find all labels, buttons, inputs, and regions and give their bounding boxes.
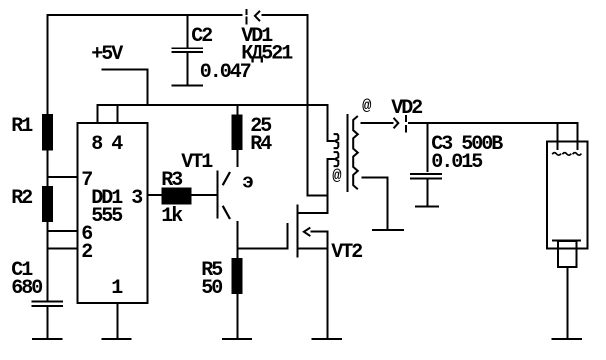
lamp EL1 tube <box>547 142 588 249</box>
lamp base box <box>558 241 577 267</box>
wire VT2 source down to ground <box>327 231 329 339</box>
svg-text:0.047: 0.047 <box>200 61 251 84</box>
wire top rail right segment <box>262 14 309 16</box>
transistor VT2 gate bar <box>287 223 289 250</box>
transistor VT1 base bar <box>217 171 219 219</box>
svg-text:1k: 1k <box>161 205 183 228</box>
wire left vertical from top rail to R1 <box>47 14 49 114</box>
wire VT2 bulk wire <box>297 247 328 249</box>
svg-text:э: э <box>242 172 253 195</box>
svg-text:VD2: VD2 <box>391 97 422 120</box>
wire R2 to C1 <box>47 222 49 301</box>
lamp filament squiggle <box>552 153 581 156</box>
wire VT2 drain wire <box>298 212 329 214</box>
capacitor C2 bottom lead <box>187 53 189 85</box>
capacitor C1 bottom lead <box>47 307 49 339</box>
resistor R2 <box>42 186 53 222</box>
svg-text:0.015: 0.015 <box>431 151 482 174</box>
wire top rail left segment <box>47 14 243 16</box>
wire gate wire from collector node <box>237 247 289 249</box>
svg-text:C2: C2 <box>191 25 212 48</box>
resistor R5 <box>232 258 243 294</box>
diode VD1 (cathode bar) <box>246 9 248 25</box>
wire pin7 stub <box>47 176 79 178</box>
wire winding-left bottom vertical <box>327 158 329 214</box>
wire R1 to R2 <box>47 150 49 187</box>
ground under R5 <box>222 338 252 340</box>
svg-text:555: 555 <box>91 205 122 228</box>
diode VD2 arrowhead <box>394 119 398 128</box>
wire lamp bottom lead <box>567 267 569 339</box>
transistor VT1 collector stroke <box>223 206 230 219</box>
resistor R4 <box>232 115 243 151</box>
svg-text:8: 8 <box>91 133 102 156</box>
transformer core <box>347 114 349 192</box>
ground under C2 <box>172 84 204 86</box>
wire winding-left top lead <box>327 104 329 142</box>
svg-text:R1: R1 <box>11 115 33 138</box>
svg-text:@: @ <box>332 167 341 185</box>
svg-text:@: @ <box>362 97 371 115</box>
ground under transformer secondary <box>372 229 404 231</box>
svg-text:3: 3 <box>131 187 142 210</box>
wire winding-right bottom lead <box>362 177 389 179</box>
capacitor C3 bottom lead <box>427 179 429 205</box>
wire pin4 drop <box>117 104 119 123</box>
transistor VT2 channel bar <box>297 205 299 258</box>
capacitor C2 plates <box>172 47 204 53</box>
wire VT1 emitter lead up <box>237 150 239 167</box>
wire pin2 stub <box>47 247 79 249</box>
ground under lamp <box>552 338 583 340</box>
wire VT1 collector lead down <box>237 221 239 249</box>
ground under C3 <box>415 206 439 208</box>
transformer T1 secondary winding <box>353 116 358 189</box>
lamp base flange <box>552 240 581 242</box>
wire R3 to VT1 base <box>192 194 219 196</box>
wire R5 top lead <box>237 247 239 258</box>
wire lamp terminal drop 1 <box>557 122 559 150</box>
wire winding hook top <box>327 140 335 142</box>
capacitor C3 top lead <box>427 122 429 172</box>
capacitor C3 plates <box>410 173 442 179</box>
wire VD2 output to lamp <box>408 122 579 124</box>
diode VD2 anode wire with arrow <box>361 122 394 124</box>
wire winding-right drop to ground <box>387 177 389 231</box>
wire R4 top lead <box>237 104 239 115</box>
diode VD2 cathode bar <box>405 115 407 132</box>
resistor R1 <box>42 114 53 151</box>
wire from top rail down (VD1 cathode to drain node) <box>307 14 309 196</box>
capacitor C1 plates <box>32 300 64 307</box>
svg-text:2: 2 <box>81 241 92 264</box>
svg-text:R3: R3 <box>161 169 182 192</box>
svg-text:R2: R2 <box>11 187 32 210</box>
wire R5 bottom lead <box>237 294 239 339</box>
wire junction horizontal <box>307 195 329 197</box>
diode VD1 arrow <box>255 12 259 21</box>
capacitor C2 top lead <box>187 14 189 47</box>
svg-text:VT2: VT2 <box>331 241 362 264</box>
wire +5V drop to rail <box>147 69 149 107</box>
ground under C1 <box>32 338 63 340</box>
svg-text:+5V: +5V <box>91 43 123 66</box>
ground under VT2 <box>312 338 343 340</box>
wire winding hook bottom <box>327 158 335 160</box>
svg-text:50: 50 <box>201 277 222 300</box>
wire pin3 stub <box>148 194 163 196</box>
svg-text:VT1: VT1 <box>181 151 213 174</box>
svg-text:R4: R4 <box>250 133 272 156</box>
transformer T1 primary winding <box>334 134 339 166</box>
transistor VT2 source arrow <box>304 228 310 235</box>
resistor R3 <box>162 188 192 205</box>
wire +5V horizontal <box>102 69 149 71</box>
wire pin8 drop <box>97 104 99 123</box>
transistor VT1 emitter stroke <box>223 172 230 185</box>
ground under pin1 <box>102 338 132 340</box>
wire pin1 lead <box>117 303 119 339</box>
wire VT2 source wire <box>311 231 329 233</box>
wire pin6 stub <box>47 230 79 232</box>
wire lamp terminal drop 2 <box>577 122 579 150</box>
svg-text:680: 680 <box>11 277 42 300</box>
op-amp/timer DD1 box <box>78 123 148 303</box>
wire +5V rail <box>97 104 329 106</box>
